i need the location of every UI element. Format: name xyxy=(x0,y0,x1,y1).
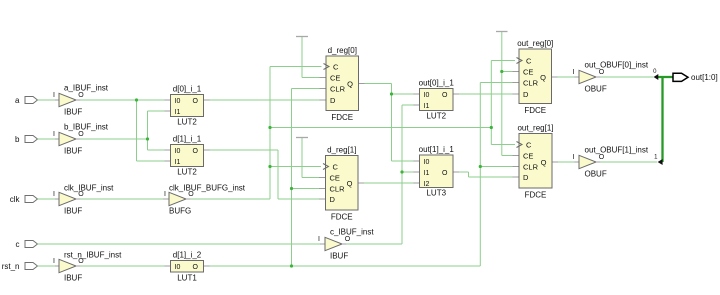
wire rst_n port to rst_n_IBUF xyxy=(38,265,60,267)
svg-text:clk: clk xyxy=(10,195,21,204)
svg-text:D: D xyxy=(523,90,529,99)
buffer out_OBUF[1]_inst (OBUF) xyxy=(573,145,649,178)
svg-text:I0: I0 xyxy=(424,92,430,99)
svg-text:d[1]_i_1: d[1]_i_1 xyxy=(173,135,202,144)
svg-text:I0: I0 xyxy=(175,264,181,271)
flip-flop out_reg[0] (FDCE) xyxy=(513,39,558,115)
svg-text:d_reg[0]: d_reg[0] xyxy=(328,46,357,55)
svg-text:b: b xyxy=(15,135,20,144)
buffer a_IBUF_inst (IBUF) xyxy=(53,83,109,116)
svg-text:FDCE: FDCE xyxy=(524,106,546,115)
svg-text:O: O xyxy=(193,264,199,271)
junction dot rst at x=291.5 y=188.5 xyxy=(290,187,293,190)
power VCC for out_reg CE pins xyxy=(496,32,513,156)
svg-text:rst_n: rst_n xyxy=(2,262,20,271)
buffer out_OBUF[0]_inst (OBUF) xyxy=(573,60,649,93)
svg-text:clk_IBUF_inst: clk_IBUF_inst xyxy=(64,183,114,192)
junction dot VCC at out_reg[0].CE xyxy=(500,70,503,73)
bus arrowhead bit 1 xyxy=(658,159,663,165)
svg-text:I: I xyxy=(53,92,55,99)
svg-text:O: O xyxy=(599,154,605,161)
svg-text:I: I xyxy=(53,191,55,198)
net a_IBUF (to d[0]_i_1.I0 and d[1]_i_1.I1) xyxy=(81,100,165,161)
svg-text:I1: I1 xyxy=(424,103,430,110)
svg-text:O: O xyxy=(442,92,448,99)
svg-text:a_IBUF_inst: a_IBUF_inst xyxy=(64,83,109,92)
svg-text:C: C xyxy=(333,62,339,71)
svg-text:FDCE: FDCE xyxy=(331,113,353,122)
svg-text:d[1]_i_2: d[1]_i_2 xyxy=(173,251,202,260)
net d[1]_i_1.O to d_reg[1].D xyxy=(210,150,320,199)
LUT2 d[1]_i_1 xyxy=(165,135,210,177)
svg-text:I: I xyxy=(53,258,55,265)
svg-text:CE: CE xyxy=(330,173,340,182)
svg-text:OBUF: OBUF xyxy=(585,85,607,94)
net out_reg[0].Q to out_OBUF[0] xyxy=(558,76,575,78)
svg-text:Q: Q xyxy=(347,179,353,188)
buffer clk_IBUF_BUFG_inst (BUFG) xyxy=(163,183,246,215)
buffer b_IBUF_inst (IBUF) xyxy=(53,122,109,155)
junction dot d_reg[0].Q branch xyxy=(390,92,393,95)
LUT2 out[0]_i_1 xyxy=(414,79,460,121)
flip-flop d_reg[1] (FDCE) xyxy=(319,146,364,222)
junction dot clk at trunk y=166.5 xyxy=(268,165,271,168)
svg-text:I1: I1 xyxy=(424,170,430,177)
svg-text:I: I xyxy=(164,191,166,198)
net c port to c_IBUF xyxy=(38,243,321,245)
svg-text:D: D xyxy=(330,195,336,204)
svg-text:out[1:0]: out[1:0] xyxy=(691,73,718,82)
svg-text:CLR: CLR xyxy=(523,78,539,87)
bus arrowhead bit 0 xyxy=(654,74,659,80)
power VCC for d_reg[0].CE xyxy=(296,37,320,78)
svg-text:C: C xyxy=(526,140,532,149)
svg-text:Q: Q xyxy=(541,158,547,167)
svg-text:D: D xyxy=(523,173,529,182)
svg-text:BUFG: BUFG xyxy=(169,207,191,216)
svg-text:O: O xyxy=(599,69,605,76)
svg-text:CLR: CLR xyxy=(330,184,346,193)
net d_reg[1].Q to out[1]_i_1.I2 xyxy=(364,182,414,184)
svg-text:CLR: CLR xyxy=(523,162,539,171)
svg-text:b_IBUF_inst: b_IBUF_inst xyxy=(64,122,109,131)
svg-text:O: O xyxy=(193,148,199,155)
net rst (d[1]_i_2.O to all FDCE CLR pins) xyxy=(210,83,513,267)
port out[1:0] (output) xyxy=(673,73,718,82)
bus out[1:0] (thick) xyxy=(658,77,674,162)
wire b port to b_IBUF xyxy=(38,138,60,140)
svg-text:I1: I1 xyxy=(175,159,181,166)
net b_IBUF (to d[0]_i_1.I1 and d[1]_i_1.I0) xyxy=(81,111,165,150)
net c_IBUF (to out[0]_i_1.I1 and out[1]_i_1.I1) xyxy=(347,105,414,244)
wire a port to a_IBUF xyxy=(38,99,60,101)
net out[1]_i_1.O to out_reg[1].D xyxy=(459,172,513,177)
svg-text:O: O xyxy=(193,98,199,105)
junction dot rst at x=291.5 y=266 xyxy=(290,264,293,267)
buffer rst_n_IBUF_inst (IBUF) xyxy=(53,250,122,282)
junction dot net a_IBUF xyxy=(135,98,138,101)
svg-text:out_reg[0]: out_reg[0] xyxy=(517,39,553,48)
svg-text:out_OBUF[0]_inst: out_OBUF[0]_inst xyxy=(585,60,649,69)
svg-text:I0: I0 xyxy=(175,98,181,105)
svg-text:I: I xyxy=(573,69,575,76)
svg-text:LUT1: LUT1 xyxy=(177,273,197,282)
svg-text:out[0]_i_1: out[0]_i_1 xyxy=(419,79,455,88)
svg-text:1: 1 xyxy=(654,155,658,161)
svg-text:O: O xyxy=(442,170,448,177)
net out_OBUF[0] to bus xyxy=(601,76,654,78)
svg-text:IBUF: IBUF xyxy=(64,108,82,117)
svg-text:O: O xyxy=(78,131,84,138)
power VCC for d_reg[1].CE xyxy=(296,138,319,178)
svg-text:I0: I0 xyxy=(175,148,181,155)
svg-text:d[0]_i_1: d[0]_i_1 xyxy=(173,85,202,94)
flip-flop out_reg[1] (FDCE) xyxy=(513,124,559,200)
svg-text:I1: I1 xyxy=(175,109,181,116)
net d_reg[0].Q (to out[0]_i_1.I0 and out[1]_i_1.I0) xyxy=(365,84,414,162)
junction dot rst at x=480.3 y=166.5 xyxy=(479,165,482,168)
svg-text:d_reg[1]: d_reg[1] xyxy=(327,146,356,155)
svg-text:LUT2: LUT2 xyxy=(177,167,197,176)
svg-text:IBUF: IBUF xyxy=(64,147,82,156)
wire clk port to clk_IBUF xyxy=(38,198,60,200)
svg-text:rst_n_IBUF_inst: rst_n_IBUF_inst xyxy=(64,250,122,259)
junction dot net b_IBUF xyxy=(146,137,149,140)
svg-text:C: C xyxy=(333,162,339,171)
svg-text:OBUF: OBUF xyxy=(585,170,607,179)
svg-text:IBUF: IBUF xyxy=(64,274,82,283)
svg-text:Q: Q xyxy=(347,79,353,88)
port rst_n xyxy=(2,262,38,271)
buffer clk_IBUF_inst (IBUF) xyxy=(53,183,114,215)
svg-text:I: I xyxy=(573,154,575,161)
net out_OBUF[1] to bus xyxy=(601,161,657,163)
net d[0]_i_1.O to d_reg[0].D xyxy=(210,99,320,101)
svg-text:LUT3: LUT3 xyxy=(426,188,446,197)
LUT1 d[1]_i_2 xyxy=(165,251,210,283)
svg-text:c_IBUF_inst: c_IBUF_inst xyxy=(330,227,374,236)
LUT2 d[0]_i_1 xyxy=(165,85,210,127)
svg-text:I: I xyxy=(53,131,55,138)
svg-text:Q: Q xyxy=(540,73,546,82)
svg-text:out_reg[1]: out_reg[1] xyxy=(517,124,553,133)
flip-flop d_reg[0] (FDCE) xyxy=(320,46,365,122)
svg-text:LUT2: LUT2 xyxy=(177,117,197,126)
net clk (BUFG output to all FDCE C pins) xyxy=(191,61,515,200)
svg-text:C: C xyxy=(526,56,532,65)
svg-text:out[1]_i_1: out[1]_i_1 xyxy=(419,145,455,154)
svg-text:O: O xyxy=(345,236,351,243)
svg-text:clk_IBUF_BUFG_inst: clk_IBUF_BUFG_inst xyxy=(169,183,246,192)
port a xyxy=(15,96,37,105)
svg-text:CLR: CLR xyxy=(330,84,346,93)
svg-text:c: c xyxy=(16,240,20,249)
svg-text:0: 0 xyxy=(653,69,657,75)
svg-text:IBUF: IBUF xyxy=(64,207,82,216)
svg-text:LUT2: LUT2 xyxy=(426,111,446,120)
svg-text:D: D xyxy=(330,96,336,105)
svg-text:I0: I0 xyxy=(424,159,430,166)
svg-text:O: O xyxy=(78,92,84,99)
svg-text:CE: CE xyxy=(523,151,533,160)
net clk_IBUF to BUFG xyxy=(81,198,163,200)
port b xyxy=(15,135,37,144)
svg-text:CE: CE xyxy=(523,67,533,76)
net rst_n_IBUF to d[1]_i_2.I0 xyxy=(81,265,165,267)
net out_reg[1].Q to out_OBUF[1] xyxy=(558,161,575,163)
svg-text:I: I xyxy=(318,236,320,243)
svg-text:IBUF: IBUF xyxy=(330,252,348,261)
svg-text:FDCE: FDCE xyxy=(331,212,353,221)
net out[0]_i_1.O to out_reg[0].D xyxy=(459,93,513,95)
junction dot c_IBUF branch xyxy=(400,170,403,173)
svg-text:FDCE: FDCE xyxy=(525,191,547,200)
buffer c_IBUF_inst (IBUF) xyxy=(318,227,374,260)
port clk xyxy=(10,195,38,204)
svg-text:out_OBUF[1]_inst: out_OBUF[1]_inst xyxy=(585,145,649,154)
svg-text:CE: CE xyxy=(330,73,340,82)
svg-text:a: a xyxy=(15,96,20,105)
junction dot clk at trunk y=127.5 xyxy=(268,126,271,129)
LUT3 out[1]_i_1 xyxy=(414,145,460,197)
port c xyxy=(16,240,38,249)
junction dot clk at riser x=491.3 xyxy=(490,126,493,129)
svg-text:I2: I2 xyxy=(424,181,430,188)
